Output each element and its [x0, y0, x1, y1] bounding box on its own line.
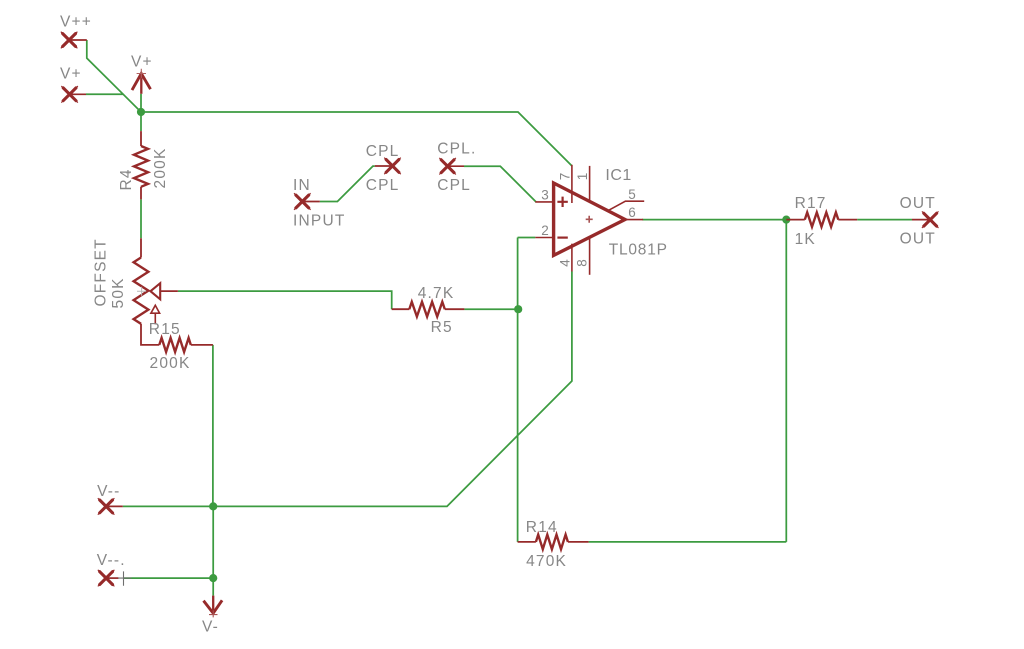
svg-text:50K: 50K — [110, 277, 127, 308]
junction output/R17/R14 — [782, 216, 790, 224]
supply symbol V+ arrow — [131, 54, 153, 94]
junction R5/feedback node — [514, 305, 522, 313]
resistor R14 470K — [518, 519, 589, 570]
wire R14 to junction — [589, 541, 787, 543]
net flag V+ (left) — [60, 66, 86, 103]
wire opamp output to R17 junction — [642, 219, 786, 221]
svg-text:8: 8 — [575, 259, 590, 267]
net flag V++ — [60, 14, 92, 49]
svg-text:CPL: CPL — [437, 177, 471, 194]
svg-text:V--: V-- — [97, 483, 120, 500]
wire R17 to OUT flag — [857, 219, 912, 221]
small plus near tip — [586, 216, 593, 223]
junction V+ rail — [137, 108, 145, 116]
wire V++ to junction — [87, 40, 141, 112]
svg-text:470K: 470K — [526, 553, 567, 570]
op-amp U1 IC1 TL081P — [535, 165, 667, 275]
wire opamp pin 2 — [518, 237, 536, 239]
svg-text:CPL: CPL — [366, 177, 400, 194]
wire V-- junction down to V--. junction — [212, 506, 214, 578]
svg-text:OUT: OUT — [900, 230, 936, 247]
plus marker (pin 3) — [557, 197, 567, 207]
svg-text:V-: V- — [202, 619, 219, 636]
net flag OUT — [900, 195, 939, 248]
svg-text:R5: R5 — [431, 319, 453, 336]
resistor R15 200K — [149, 321, 213, 372]
resistor R17 1K — [786, 195, 857, 248]
wire V--. flag to junction — [124, 577, 213, 579]
net flag CPL (first) — [366, 143, 401, 194]
wire top supply rail to opamp pin 7 — [141, 112, 572, 166]
svg-text:CPL.: CPL. — [437, 140, 476, 157]
wire V+ arrow stem to junction — [140, 94, 142, 112]
pin 5 lead — [609, 201, 645, 210]
svg-text:R15: R15 — [149, 321, 181, 338]
wire pot wiper to R5 — [178, 291, 392, 309]
wire R4 to offset pot — [140, 199, 142, 238]
pin 7 lead — [571, 165, 573, 203]
svg-text:V++: V++ — [60, 14, 92, 31]
svg-text:200K: 200K — [150, 355, 191, 372]
pin 1 lead — [589, 166, 591, 201]
wire R5 to node — [464, 308, 518, 310]
junction V--. rail — [209, 574, 217, 582]
net flag CPL. (second) — [437, 140, 476, 193]
pot origin cross — [137, 287, 146, 296]
net flag V-- — [97, 483, 123, 515]
svg-text:IN: IN — [293, 177, 311, 194]
svg-text:V--.: V--. — [97, 552, 126, 569]
wire junction down to R4 — [140, 112, 142, 131]
svg-text:3: 3 — [541, 187, 549, 202]
svg-text:V+: V+ — [131, 54, 153, 71]
pin 6 lead — [625, 219, 643, 221]
wire feedback vertical node — [517, 238, 519, 542]
svg-text:1: 1 — [575, 173, 590, 181]
origin cross near V--. — [118, 571, 132, 585]
svg-text:CPL: CPL — [366, 143, 400, 160]
pin 2 lead — [535, 237, 553, 239]
wire junction down to R14 level — [785, 220, 787, 542]
svg-text:2: 2 — [541, 223, 549, 238]
minus marker (pin 2) — [557, 237, 567, 239]
net flag IN / INPUT — [293, 177, 346, 230]
wire V+ flag to diagonal — [86, 93, 123, 95]
svg-text:INPUT: INPUT — [293, 212, 346, 229]
wire CPL. flag to opamp pin 3 — [464, 166, 536, 202]
svg-text:OUT: OUT — [900, 195, 936, 212]
svg-text:R17: R17 — [795, 195, 827, 212]
pot wiper arrow — [151, 283, 161, 299]
net flag V--. — [97, 552, 132, 586]
svg-text:IC1: IC1 — [605, 167, 631, 184]
wire R15 down to V-- rail — [212, 345, 214, 507]
triangle body — [554, 183, 625, 255]
svg-text:4: 4 — [557, 259, 572, 267]
wire opamp pin 4 down diagonal to V-- rail — [123, 272, 572, 507]
pin 3 lead — [535, 201, 553, 203]
wire IN to CPL flag — [320, 166, 375, 201]
svg-text:TL081P: TL081P — [609, 241, 668, 258]
svg-text:R14: R14 — [526, 519, 558, 536]
pin 8 lead — [589, 237, 591, 274]
svg-text:4.7K: 4.7K — [418, 285, 455, 302]
supply symbol V- arrow — [202, 596, 222, 636]
svg-text:R4: R4 — [118, 168, 135, 190]
resistor R5 4.7K — [392, 285, 465, 336]
svg-text:1K: 1K — [795, 231, 816, 248]
pot adjust arrow — [151, 305, 160, 313]
svg-text:OFFSET: OFFSET — [93, 238, 110, 306]
svg-text:7: 7 — [557, 173, 572, 181]
svg-text:6: 6 — [628, 205, 636, 220]
resistor R4 200K — [118, 131, 169, 199]
svg-text:200K: 200K — [152, 148, 169, 189]
svg-text:5: 5 — [628, 187, 636, 202]
trimmer OFFSET 50K — [93, 238, 178, 345]
svg-text:V+: V+ — [60, 66, 82, 83]
pin 4 lead — [571, 244, 573, 272]
junction V-- rail — [209, 502, 217, 510]
wire junction to V- arrow — [212, 578, 214, 596]
